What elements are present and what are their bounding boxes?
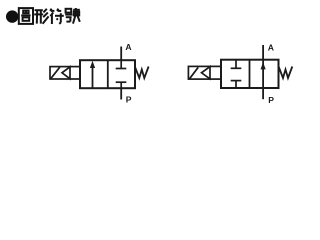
flow line A-P through V2 right square xyxy=(262,45,264,99)
position divider of V1 xyxy=(107,60,109,88)
return spring of V1 xyxy=(135,67,149,79)
port line A of V1 xyxy=(120,47,122,61)
title glyph 號 xyxy=(65,8,80,24)
svg-text:P: P xyxy=(126,95,132,105)
title bullet xyxy=(6,10,18,22)
svg-text:P: P xyxy=(268,95,274,105)
title glyph 圖 xyxy=(19,8,33,24)
flow arrow in V1 left square xyxy=(90,61,95,88)
port line P of V1 xyxy=(120,88,122,99)
armature triangle of SOL2 xyxy=(202,67,211,79)
flow arrowhead in V2 right square xyxy=(261,62,266,69)
position divider of V2 xyxy=(249,60,251,88)
solenoid coil SOL2 (right valve actuator box) xyxy=(188,66,221,79)
blocked port symbol (top T) in V2 left square xyxy=(231,60,242,69)
blocked port symbol (bottom T) in V2 left square xyxy=(231,81,242,88)
blocked port symbol (bottom T) in V1 right square xyxy=(116,82,127,88)
title glyph 符 xyxy=(50,9,64,24)
svg-text:A: A xyxy=(268,42,274,52)
solenoid coil SOL1 (left valve actuator box) xyxy=(50,67,80,79)
title glyph 形 xyxy=(34,9,48,24)
valve body V2 (right valve, two-position envelope) xyxy=(221,60,279,88)
valve body V1 (left valve, two-position envelope) xyxy=(80,60,135,88)
return spring of V2 xyxy=(279,67,293,79)
armature triangle of SOL1 xyxy=(62,67,70,79)
svg-text:A: A xyxy=(125,42,131,52)
blocked port symbol (top T) in V1 right square xyxy=(116,60,127,68)
